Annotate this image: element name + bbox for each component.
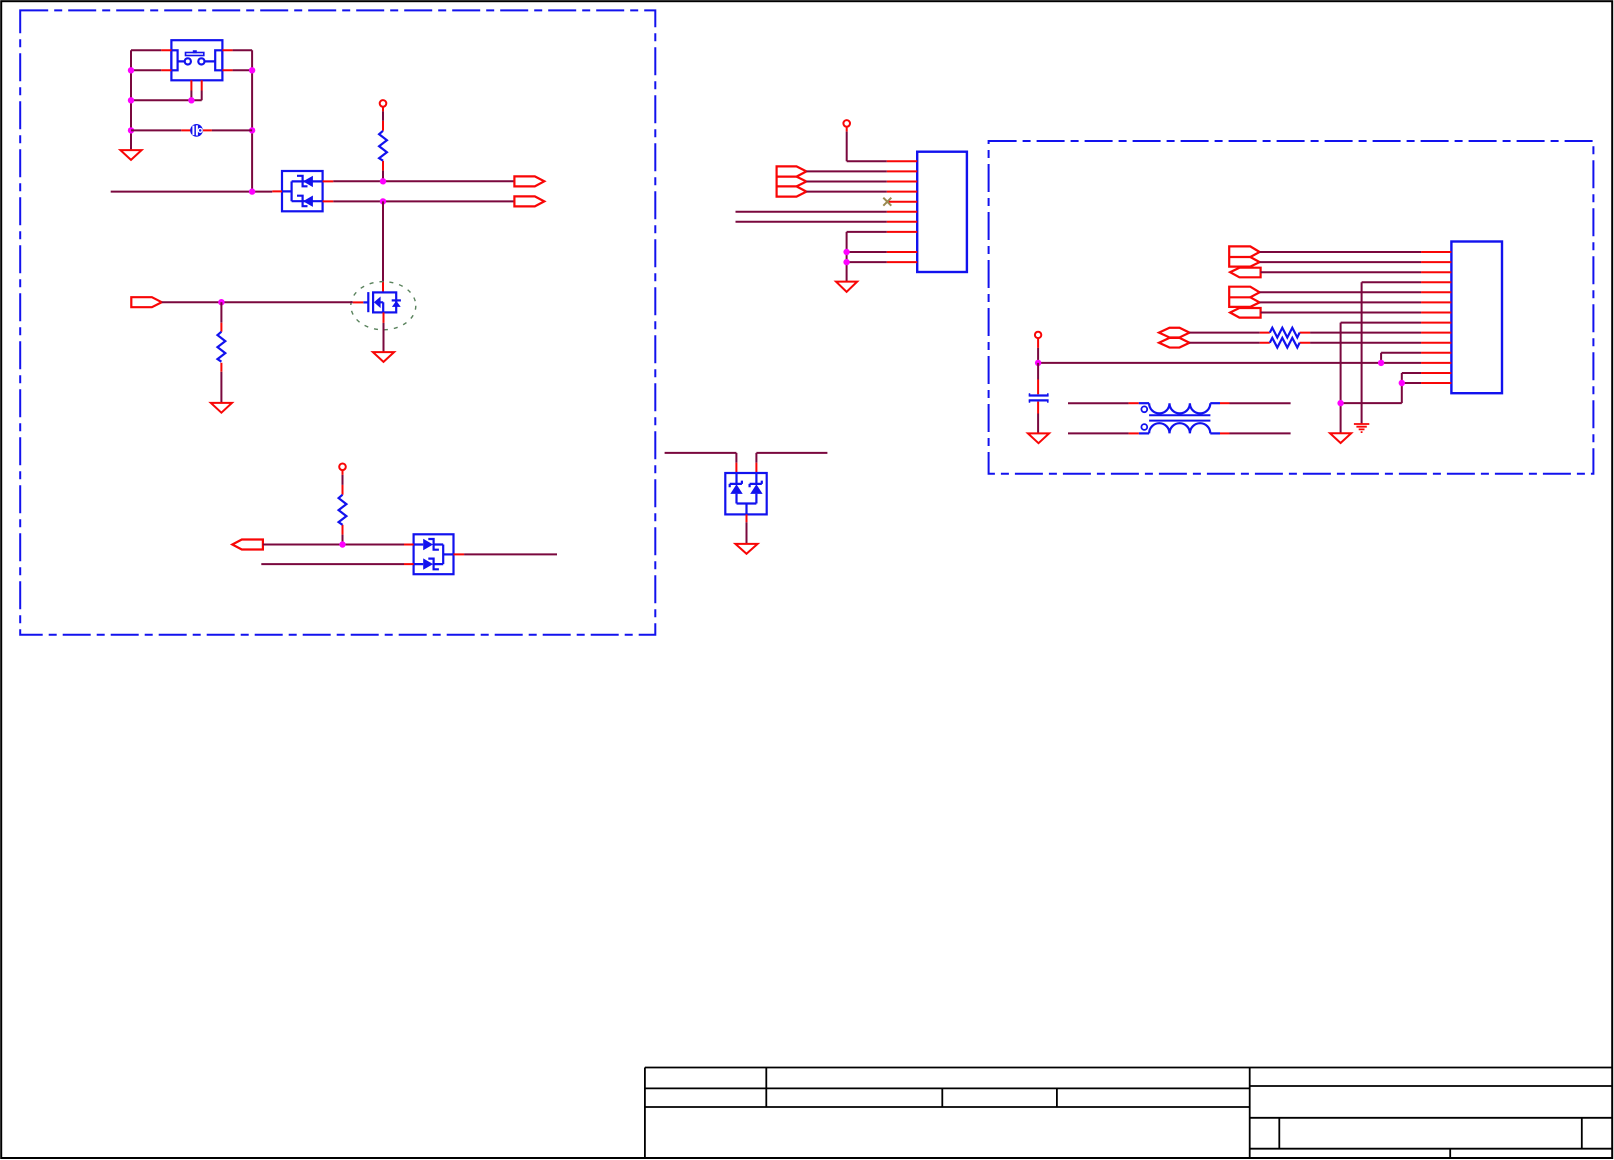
TVS D3 bottom pin xyxy=(746,514,748,522)
wire rail to capacitor C1 xyxy=(1037,363,1039,380)
output port arrow bottom xyxy=(514,196,544,206)
choke T1 phase dot bottom xyxy=(1141,424,1147,430)
capacitor C1 lead bottom xyxy=(1037,402,1039,414)
wire gate net xyxy=(162,301,353,303)
D1 pins xyxy=(272,181,333,201)
wire R4 to J2 pin 9 xyxy=(1310,332,1421,334)
choke T1 pin bottom right xyxy=(1220,432,1230,434)
TVS D3 pins top xyxy=(736,463,756,473)
wire switch top-left to left rail xyxy=(131,49,161,51)
wire J2 pin 4 to earth xyxy=(1362,282,1422,424)
common-mode choke T1 bottom winding xyxy=(1139,423,1220,433)
power lead J2 rail xyxy=(1037,338,1039,348)
wire J1 pin 9 xyxy=(847,251,887,253)
wire D1 top output xyxy=(333,180,514,182)
wire J2 pin 5 xyxy=(1260,291,1422,293)
MOSFET Q1 xyxy=(363,292,401,312)
dual zener TVS D3 xyxy=(725,473,766,514)
power node circle J2 rail xyxy=(1035,332,1041,338)
dual diode D2 xyxy=(414,534,454,574)
wire source to ground xyxy=(383,323,385,352)
wire R2 to ground xyxy=(220,372,222,403)
junction switch bottom pin bus xyxy=(188,97,194,103)
junction dot power rail xyxy=(1035,360,1041,366)
wire TVS to ground xyxy=(746,522,748,544)
input port arrow gate net xyxy=(131,297,161,307)
bidirectional port hexagon 2 xyxy=(1159,338,1190,348)
resistor R1 xyxy=(379,131,387,161)
switch SW1 pins xyxy=(161,50,232,90)
output port arrow pair J2 group2 xyxy=(1229,287,1259,307)
ground symbol below R2 xyxy=(211,403,232,413)
wire power to rail junction xyxy=(1037,348,1039,363)
output port arrow pair J2 group1 xyxy=(1229,246,1259,266)
input port arrow J2 group1 xyxy=(1230,268,1261,278)
wire R5 to J2 pin 10 xyxy=(1310,342,1421,344)
dual schottky diode D1 xyxy=(282,171,323,211)
power node circle above connector J1 xyxy=(843,120,850,127)
choke T1 phase dot top xyxy=(1141,406,1147,412)
resistor R2 xyxy=(218,332,226,362)
switch SW1 (push button) xyxy=(171,40,222,80)
MOSFET Q1 highlight ellipse xyxy=(351,282,416,330)
wire C1 to ground xyxy=(1037,414,1039,434)
wire TVS left net xyxy=(665,453,737,463)
earth ground symbol rail B xyxy=(1354,424,1369,432)
wire switch lower-right pin xyxy=(233,69,253,71)
wire J2 pin 6 xyxy=(1260,301,1422,303)
choke T1 pin top left xyxy=(1129,402,1139,404)
D2 pins xyxy=(404,545,464,565)
wire hex2 to R5 xyxy=(1190,342,1260,344)
junction left rail bottom bus xyxy=(128,97,134,103)
wire lower input 2 xyxy=(261,563,404,565)
ground symbol below TVS xyxy=(735,544,757,554)
wire J1 pin 10 xyxy=(847,261,887,263)
junction right rail bead wire xyxy=(249,127,255,133)
wire J1 pin 6 xyxy=(736,211,887,213)
ground symbol below Q1 xyxy=(373,352,394,362)
wire choke T1 bottom left xyxy=(1068,432,1129,434)
ferrite bead FB1 pins xyxy=(181,129,212,131)
bidirectional port hexagon 1 xyxy=(1159,328,1190,338)
junction dot R3 bottom xyxy=(339,541,345,547)
wire bottom net to MOSFET drain xyxy=(382,201,384,281)
wire hex1 to R4 xyxy=(1190,332,1260,334)
junction dot drain tap on bottom wire xyxy=(380,198,386,204)
wire power to J1 pin 1 xyxy=(847,132,887,162)
resistor R4 leads xyxy=(1260,332,1310,334)
junction dot pin11/12 xyxy=(1378,360,1384,366)
junction right rail pin4 xyxy=(249,67,255,73)
wire left rail vertical xyxy=(130,50,132,150)
title block outline xyxy=(645,1068,1613,1159)
resistor R1 leads xyxy=(382,107,384,171)
capacitor C1 lead top xyxy=(1037,380,1039,395)
ground symbol rail A xyxy=(1330,433,1351,443)
input port arrow lower left xyxy=(232,540,263,550)
wire D1 input net xyxy=(111,191,273,193)
ground symbol below C1 xyxy=(1028,433,1049,443)
wire bead line right xyxy=(212,129,252,131)
output port arrow top xyxy=(514,176,544,186)
choke T1 pin bottom left xyxy=(1129,432,1139,434)
wire J1 pin 2 xyxy=(806,170,886,172)
wire J2 pin 11 jog xyxy=(1381,353,1421,363)
ground symbol left rail xyxy=(120,150,141,160)
power node circle above R1 xyxy=(380,100,387,107)
choke T1 pin top right xyxy=(1220,402,1230,404)
wire J2 pin 13 jog xyxy=(1402,373,1421,383)
wire D2 output xyxy=(464,553,557,555)
ferrite bead FB1 xyxy=(191,125,202,136)
resistor R3 leads xyxy=(342,470,344,534)
power node circle above R3 xyxy=(339,464,346,471)
connector J1 body xyxy=(917,152,967,272)
junction dot gate net xyxy=(218,299,224,305)
junction dot R1 on top wire xyxy=(380,178,386,184)
junction dot pin13/14 xyxy=(1399,380,1405,386)
MOSFET Q1 gate pin xyxy=(353,301,364,303)
wire J1 pin 4 xyxy=(806,191,886,193)
output port arrow stack J1 xyxy=(777,166,807,196)
wire lower input 1 xyxy=(263,544,404,546)
MOSFET Q1 source pin xyxy=(383,312,385,323)
wire J2 pin 2 xyxy=(1260,261,1422,263)
left section dashed boundary box xyxy=(20,10,655,634)
wire J2 pin 12 power rail xyxy=(1038,362,1421,364)
wire J2 pin 14 xyxy=(1341,383,1422,403)
wire J1 pin 7 xyxy=(736,221,887,223)
junction J1 pin9 ground rail xyxy=(843,249,849,255)
junction dot D1 input xyxy=(249,188,255,194)
wire choke T1 top right xyxy=(1230,402,1291,404)
ground symbol J1 xyxy=(836,282,857,292)
input port arrow J2 group2 xyxy=(1230,308,1261,318)
wire choke T1 top left xyxy=(1068,402,1129,404)
wire D1 bottom output xyxy=(333,200,514,202)
resistor R5 xyxy=(1270,338,1300,348)
junction dot ground rail A xyxy=(1337,400,1343,406)
wire J2 pin 7 xyxy=(1261,312,1422,314)
connector J2 body xyxy=(1451,242,1502,394)
right section dashed boundary box xyxy=(989,141,1594,474)
common-mode choke T1 top winding xyxy=(1139,403,1220,413)
resistor R3 xyxy=(339,495,347,525)
wire choke T1 bottom right xyxy=(1230,432,1291,434)
wire J2 pin 3 xyxy=(1261,271,1422,273)
wire J2 pin 8 to ground rail A xyxy=(1341,323,1422,434)
junction left rail bead wire xyxy=(128,127,134,133)
connector J1 pin stubs xyxy=(887,161,917,262)
choke T1 core lines xyxy=(1149,415,1210,420)
resistor R5 leads xyxy=(1260,342,1310,344)
wire TVS right net xyxy=(756,453,827,463)
connector J2 pin stubs xyxy=(1421,252,1451,383)
no-connect X on J1 pin 5 xyxy=(883,198,891,206)
resistor R4 xyxy=(1270,328,1300,338)
J1 power lead xyxy=(846,127,848,132)
wire switch top-right to right rail xyxy=(233,49,253,51)
wire right rail vertical xyxy=(251,50,253,191)
junction J1 pin10 ground rail xyxy=(843,259,849,265)
wire J1 pin 8 to ground rail xyxy=(847,232,887,282)
MOSFET Q1 drain pin xyxy=(382,282,384,293)
wire bead line left xyxy=(131,129,181,131)
wire J1 pin 3 xyxy=(806,181,886,183)
wire switch bottom pins to bus xyxy=(131,91,202,101)
wire switch lower-left pin xyxy=(131,69,161,71)
capacitor C1 xyxy=(1029,393,1049,403)
resistor R2 leads xyxy=(220,302,222,323)
wire J2 pin 1 xyxy=(1260,251,1422,253)
junction left rail pin2 xyxy=(128,67,134,73)
